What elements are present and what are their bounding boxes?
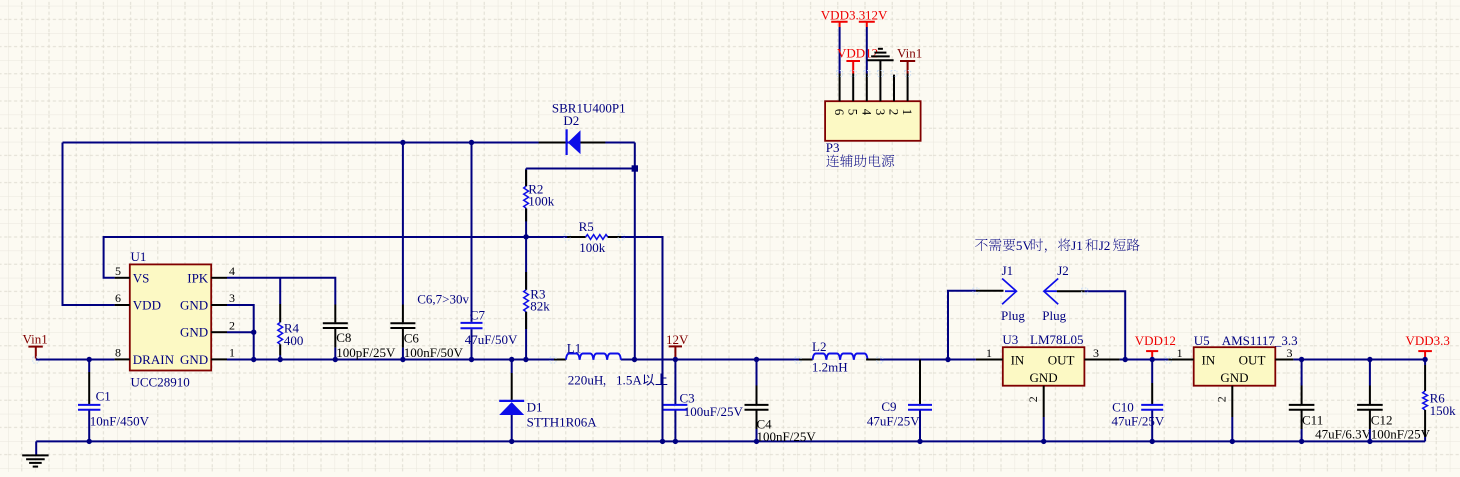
- U1 pin 6 VDD: [115, 291, 161, 312]
- svg-text:82k: 82k: [530, 299, 550, 314]
- svg-text:150k: 150k: [1430, 403, 1457, 418]
- svg-text:OUT: OUT: [1239, 353, 1266, 368]
- svg-text:U1: U1: [131, 249, 147, 264]
- U1 pin 2 GND: [180, 318, 235, 339]
- node 12V power port top: [859, 8, 888, 74]
- svg-text:1: 1: [1177, 346, 1183, 360]
- svg-text:47uF/25V: 47uF/25V: [867, 414, 920, 429]
- wire R5 to ground branch: [608, 237, 663, 441]
- U5 pin 3: [1275, 346, 1293, 360]
- svg-text:100pF/25V: 100pF/25V: [336, 345, 396, 360]
- svg-text:8: 8: [115, 346, 121, 360]
- svg-text:P3: P3: [826, 140, 840, 155]
- ground symbol left: [22, 455, 48, 466]
- capacitor C4: [745, 360, 817, 445]
- svg-text:47uF/50V: 47uF/50V: [465, 332, 518, 347]
- L1 value label: [568, 373, 668, 388]
- node VDD3.3 power port right: [1406, 333, 1450, 359]
- svg-text:6: 6: [832, 109, 847, 116]
- svg-text:C8: C8: [336, 330, 351, 345]
- svg-text:LM78L05: LM78L05: [1030, 332, 1083, 347]
- svg-text:VDD12: VDD12: [1135, 333, 1176, 348]
- svg-text:220uH: 220uH: [568, 373, 604, 388]
- wire U3 output section: [1120, 359, 1426, 361]
- svg-text:Plug: Plug: [1042, 308, 1066, 323]
- wire J2 branch: [1085, 291, 1126, 359]
- svg-text:IN: IN: [1202, 353, 1216, 368]
- svg-text:J2: J2: [1057, 263, 1069, 278]
- inductor L2: [799, 339, 880, 375]
- resistor R6: [1423, 360, 1456, 442]
- svg-text:D2: D2: [563, 113, 579, 128]
- wire top feedback rail: [63, 143, 635, 360]
- connection markers: [33, 71, 1172, 364]
- svg-text:3: 3: [1093, 346, 1099, 360]
- svg-text:1: 1: [229, 346, 235, 360]
- capacitor C8: [323, 305, 396, 361]
- P3 name 连辅助电源: [826, 154, 894, 167]
- capacitor C7: [461, 308, 519, 348]
- connector J1 Plug: [976, 263, 1025, 323]
- svg-text:100nF/25V: 100nF/25V: [1371, 427, 1431, 442]
- svg-text:DRAIN: DRAIN: [133, 352, 175, 367]
- wire R2 branch: [526, 168, 635, 170]
- diode D1 STTH1R06A: [499, 360, 597, 442]
- node VDD3.3 power port top: [821, 8, 865, 74]
- svg-text:2: 2: [1026, 396, 1040, 402]
- svg-text:C7: C7: [470, 308, 486, 323]
- capacitor C3: [663, 360, 743, 442]
- node Vin1 power port top: [897, 46, 922, 74]
- svg-text:100uF/25V: 100uF/25V: [684, 404, 744, 419]
- node Vin1 power port: [23, 332, 48, 359]
- resistor R5: [567, 219, 621, 255]
- svg-text:D1: D1: [527, 400, 543, 415]
- svg-text:R5: R5: [579, 219, 594, 234]
- svg-text:3: 3: [229, 291, 235, 305]
- svg-text:VS: VS: [133, 270, 150, 285]
- svg-text:U3: U3: [1002, 332, 1018, 347]
- diode D2 SBR1U400P1: [539, 101, 626, 156]
- U5 pin 2 GND: [1214, 386, 1232, 442]
- svg-text:100k: 100k: [528, 194, 555, 209]
- ground symbol P3: [867, 49, 893, 60]
- svg-text:5: 5: [846, 109, 861, 116]
- op-amp U1 UCC28910 body: [130, 249, 211, 390]
- svg-text:10nF/450V: 10nF/450V: [90, 414, 150, 429]
- wire IPK branch: [227, 278, 335, 305]
- svg-text:C1: C1: [96, 389, 111, 404]
- resistor R4: [278, 278, 304, 360]
- svg-text:OUT: OUT: [1048, 353, 1075, 368]
- P3 pin 2: [887, 75, 902, 116]
- P3 pin 5: [846, 74, 861, 116]
- capacitor C6: [390, 305, 463, 361]
- svg-text:1.2mH: 1.2mH: [812, 360, 848, 375]
- wire ground rail: [36, 441, 1425, 454]
- svg-text:4: 4: [229, 264, 235, 278]
- svg-text:1: 1: [986, 346, 992, 360]
- svg-text:100nF/25V: 100nF/25V: [757, 429, 817, 444]
- U5 pin 1: [1168, 346, 1193, 360]
- svg-text:U5: U5: [1194, 333, 1210, 348]
- svg-text:6: 6: [115, 291, 121, 305]
- regulator U3 LM78L05 body: [1002, 332, 1084, 386]
- resistor R3: [524, 272, 551, 329]
- svg-text:VDD: VDD: [133, 298, 161, 313]
- capacitor C11: [1289, 360, 1372, 442]
- svg-text:GND: GND: [180, 298, 208, 313]
- U1 pin 8 DRAIN: [115, 346, 175, 367]
- wire Vin1 to DRAIN: [36, 359, 115, 361]
- svg-text:GND: GND: [1030, 370, 1058, 385]
- svg-text:3: 3: [873, 109, 888, 116]
- svg-text:IN: IN: [1011, 353, 1025, 368]
- svg-text:L2: L2: [812, 339, 826, 354]
- svg-text:J2: J2: [1099, 238, 1111, 253]
- wire VS branch: [104, 237, 586, 278]
- svg-text:L1: L1: [567, 341, 581, 356]
- note C6,7>30v: [417, 292, 469, 307]
- connector J2 Plug: [1042, 263, 1084, 323]
- svg-text:400: 400: [284, 333, 304, 348]
- svg-text:IPK: IPK: [187, 270, 209, 285]
- svg-text:C11: C11: [1302, 413, 1323, 428]
- wire R2-R3 column: [525, 169, 527, 360]
- node VDD12 power port top: [837, 46, 878, 74]
- regulator U5 AMS1117_3.3 body: [1194, 333, 1298, 386]
- P3 pin 3: [873, 61, 888, 116]
- svg-text:2: 2: [1214, 396, 1228, 402]
- svg-text:VDD12: VDD12: [837, 46, 878, 61]
- U1 pin 1 GND: [180, 346, 235, 367]
- svg-text:J1: J1: [1071, 238, 1083, 253]
- wire main output rail: [227, 359, 976, 361]
- svg-text:100k: 100k: [579, 240, 606, 255]
- svg-text:VDD3.3: VDD3.3: [1406, 333, 1450, 348]
- svg-text:VDD3.3: VDD3.3: [821, 8, 865, 23]
- svg-text:5V: 5V: [1016, 238, 1033, 253]
- resistor R2: [524, 170, 555, 221]
- svg-text:UCC28910: UCC28910: [131, 375, 190, 390]
- svg-text:GND: GND: [1220, 370, 1248, 385]
- svg-text:3: 3: [1287, 346, 1293, 360]
- P3 pin 1: [900, 74, 915, 116]
- svg-text:C12: C12: [1371, 413, 1393, 428]
- node VDD12 power port: [1135, 333, 1176, 359]
- capacitor C1: [78, 360, 150, 442]
- connector P3 body: [825, 101, 921, 155]
- wire C7 column: [471, 143, 473, 360]
- U1 pin 4 IPK: [187, 264, 235, 285]
- svg-text:J1: J1: [1002, 263, 1014, 278]
- inductor L1: [554, 341, 621, 360]
- P3 pin 4: [859, 74, 874, 116]
- wire U1 gnd pins join: [227, 305, 254, 360]
- svg-text:C10: C10: [1112, 400, 1134, 415]
- note short J1 J2: [975, 238, 1140, 253]
- node 12V power port: [666, 332, 689, 359]
- svg-text:47uF/6.3V: 47uF/6.3V: [1315, 427, 1372, 442]
- U1 pin 5 VS: [115, 264, 150, 285]
- svg-text:4: 4: [859, 109, 874, 116]
- capacitor C9: [867, 360, 932, 442]
- svg-text:47uF/25V: 47uF/25V: [1112, 414, 1165, 429]
- svg-text:Vin1: Vin1: [897, 46, 922, 61]
- svg-text:12V: 12V: [666, 332, 689, 347]
- svg-text:GND: GND: [180, 325, 208, 340]
- P3 pin 6: [832, 74, 847, 116]
- svg-text:C6: C6: [404, 331, 420, 346]
- svg-text:Vin1: Vin1: [23, 332, 48, 347]
- svg-text:STTH1R06A: STTH1R06A: [527, 415, 598, 430]
- svg-text:12V: 12V: [865, 8, 888, 23]
- svg-text:2: 2: [229, 318, 235, 332]
- wire J1 branch: [948, 291, 976, 360]
- U1 pin 3 GND: [180, 291, 235, 312]
- svg-text:Plug: Plug: [1001, 308, 1025, 323]
- U3 pin 3: [1084, 346, 1119, 360]
- svg-text:GND: GND: [180, 352, 208, 367]
- svg-text:C6,7>30v: C6,7>30v: [417, 292, 469, 307]
- svg-text:5: 5: [115, 264, 121, 278]
- U3 pin 1: [976, 346, 1003, 360]
- wire C6 column: [402, 143, 404, 360]
- capacitor C12: [1357, 360, 1431, 442]
- svg-text:C9: C9: [881, 399, 896, 414]
- capacitor C10: [1112, 360, 1165, 442]
- svg-text:100nF/50V: 100nF/50V: [404, 345, 464, 360]
- svg-text:2: 2: [887, 109, 902, 116]
- svg-text:1.5A以上: 1.5A以上: [616, 373, 668, 388]
- U3 pin 2 GND: [1026, 386, 1044, 442]
- svg-text:1: 1: [900, 109, 915, 116]
